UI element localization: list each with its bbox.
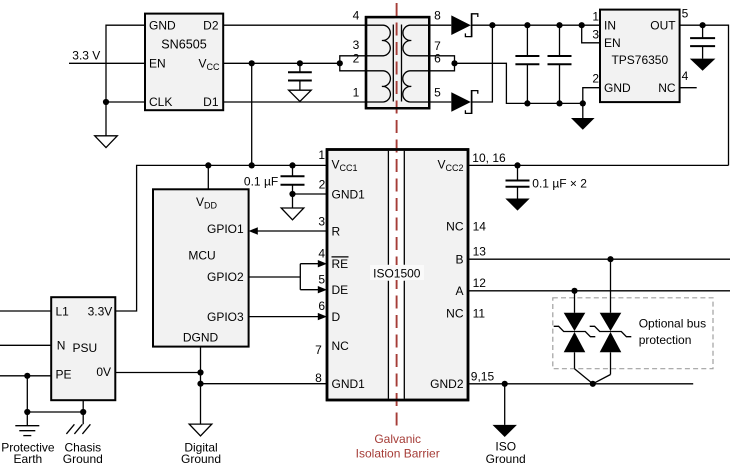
ground (TPS GND) filled triangle <box>571 118 595 130</box>
junction earth/link <box>24 409 30 415</box>
capacitor at TPS OUT <box>690 25 715 58</box>
wire TVS-B diagonal to GND2 <box>593 375 611 384</box>
wire TPS GND down <box>583 88 600 118</box>
svg-text:1: 1 <box>318 148 325 162</box>
svg-text:10, 16: 10, 16 <box>472 151 506 165</box>
svg-text:PSU: PSU <box>72 341 97 355</box>
junction B/TVS <box>607 256 613 262</box>
label Digital Ground <box>181 440 221 466</box>
ground (VCC cap) open triangle <box>289 90 312 101</box>
wire bottom diode up to rail <box>471 25 493 102</box>
svg-text:8: 8 <box>315 371 322 385</box>
svg-text:3: 3 <box>353 38 360 52</box>
wire D1 to transformer pin 1 <box>223 101 366 103</box>
label Chasis Ground <box>63 440 103 466</box>
arrow into GPIO1 <box>249 227 258 234</box>
svg-text:5: 5 <box>318 273 325 287</box>
svg-text:7: 7 <box>315 343 322 357</box>
TPS76350 labels <box>604 18 676 95</box>
svg-text:GND1: GND1 <box>332 187 366 201</box>
RE overline <box>332 256 349 258</box>
diode D2 (bottom rectifier) <box>429 90 478 114</box>
ground (OUT cap) filled triangle <box>690 59 716 71</box>
capacitor C2 input filter <box>548 25 572 103</box>
wire 0V/GND1 pin8 <box>201 383 328 385</box>
junction VDD/rail <box>205 162 211 168</box>
svg-text:1: 1 <box>353 86 360 100</box>
svg-text:8: 8 <box>434 9 441 23</box>
wire EN bracket <box>582 25 600 43</box>
ISO ground filled triangle <box>493 425 517 437</box>
junction chassis/link <box>80 409 86 415</box>
svg-text:Optional bus: Optional bus <box>639 317 706 331</box>
svg-text:GPIO2: GPIO2 <box>207 270 244 284</box>
wire OUT to right edge and down <box>680 25 729 165</box>
transformer core line right <box>401 25 403 102</box>
ISO1500 right pin labels <box>430 158 464 392</box>
svg-text:3.3V: 3.3V <box>88 304 113 318</box>
junction cap/VCC wire <box>297 60 303 66</box>
svg-text:6: 6 <box>434 51 441 65</box>
MCU body <box>153 189 249 346</box>
svg-text:4: 4 <box>353 9 360 23</box>
wire VCC2 rail <box>468 164 729 166</box>
svg-text:GND: GND <box>149 18 176 32</box>
svg-text:9,15: 9,15 <box>471 369 495 383</box>
junction C1 top <box>524 22 530 28</box>
SN6505 U1 body <box>145 14 223 111</box>
digital ground open triangle <box>189 424 212 436</box>
junction 0V corner <box>197 369 203 375</box>
ISO1500 right pin numbers <box>471 151 506 383</box>
svg-text:PE: PE <box>56 367 72 381</box>
wire R to GPIO1 <box>256 230 327 232</box>
svg-text:2: 2 <box>353 51 360 65</box>
junction OUT cap <box>700 22 706 28</box>
wire center tap to caps bottom rail <box>455 63 583 103</box>
svg-text:GPIO1: GPIO1 <box>207 222 244 236</box>
svg-text:2: 2 <box>319 178 326 192</box>
wire VCC down to 3.3V rail <box>251 63 253 165</box>
transformer pin numbers <box>353 9 442 100</box>
wire MCU VDD riser <box>207 165 209 189</box>
transformer secondary winding bottom <box>403 71 429 102</box>
capacitor at SN6505 VCC <box>288 63 312 90</box>
wire GPIO3 to D <box>249 316 320 318</box>
svg-text:Ground: Ground <box>181 452 221 466</box>
junction CLK/GND <box>103 99 109 105</box>
svg-text:IN: IN <box>604 18 616 32</box>
svg-text:SN6505: SN6505 <box>161 37 207 51</box>
junction bracket/VCC <box>337 60 343 66</box>
wire N <box>0 344 51 346</box>
junction C1 bottom <box>524 100 530 106</box>
wire L1 <box>0 310 51 312</box>
PSU body <box>51 297 115 400</box>
svg-text:1: 1 <box>592 9 599 23</box>
junction 0V/GND1 <box>197 381 203 387</box>
junction TVS/GND2 <box>590 381 596 387</box>
svg-text:D: D <box>332 310 341 324</box>
transformer core line left <box>392 25 394 102</box>
wire 0V <box>115 372 200 374</box>
ground (SN6505) open triangle <box>95 136 118 148</box>
svg-text:Ground: Ground <box>486 452 526 466</box>
junction GND/rail <box>580 100 586 106</box>
PSU labels <box>56 304 113 381</box>
svg-text:GPIO3: GPIO3 <box>207 310 244 324</box>
junction cap/GND1 <box>289 191 295 197</box>
wire PE <box>0 375 51 377</box>
svg-text:DE: DE <box>332 283 349 297</box>
wire GND1 pin2 <box>293 193 328 195</box>
svg-text:protection: protection <box>639 333 692 347</box>
optional bus protection dashed box <box>553 298 713 369</box>
svg-text:NC: NC <box>446 220 464 234</box>
svg-text:EN: EN <box>604 36 621 50</box>
ISO1500 channel line left <box>387 151 389 399</box>
svg-text:14: 14 <box>473 220 487 234</box>
svg-text:D1: D1 <box>203 95 219 109</box>
label Optional bus protection <box>639 317 706 347</box>
label Galvanic Isolation Barrier <box>356 432 440 461</box>
svg-text:Isolation Barrier: Isolation Barrier <box>356 446 440 460</box>
ISO1500 left pin labels <box>332 158 366 391</box>
svg-text:13: 13 <box>473 244 487 258</box>
ISO1500 U3 body fill <box>327 150 468 401</box>
svg-text:TPS76350: TPS76350 <box>611 53 668 67</box>
svg-text:RE: RE <box>332 257 349 271</box>
wire diode out to TPS IN rail <box>471 24 600 26</box>
svg-text:NC: NC <box>446 306 464 320</box>
junction VCC2 cap <box>514 162 520 168</box>
transformer primary winding bottom <box>367 71 391 102</box>
wire GPIO2 to RE/DE bracket <box>249 264 320 290</box>
svg-text:L1: L1 <box>56 304 70 318</box>
wire CLK <box>106 101 145 103</box>
transformer core gap (white) <box>395 18 401 107</box>
wire DGND to digital ground <box>200 347 202 425</box>
wire A <box>468 290 730 292</box>
wire pins3-2 bracket <box>340 56 366 71</box>
svg-text:OUT: OUT <box>650 18 676 32</box>
capacitor C1 input filter <box>515 25 539 103</box>
wire GND2 <box>468 383 693 385</box>
svg-text:0.1 µF: 0.1 µF <box>244 175 278 189</box>
TVS diode (B line) <box>590 259 632 374</box>
TPS76350 U2 body <box>600 10 680 103</box>
junction PE <box>24 373 30 379</box>
wire VCC to transformer bracket <box>223 62 340 64</box>
svg-text:D2: D2 <box>203 18 219 32</box>
ISO1500 channel line right <box>403 151 405 399</box>
svg-text:0.1 µF × 2: 0.1 µF × 2 <box>532 177 587 191</box>
svg-text:B: B <box>455 253 463 267</box>
svg-text:EN: EN <box>149 57 166 71</box>
wire NC stub <box>680 87 697 89</box>
wire GND2 to ISO ground <box>504 384 506 425</box>
svg-text:2: 2 <box>592 71 599 85</box>
junction EN/IN <box>579 22 585 28</box>
SN6505 labels <box>149 18 220 109</box>
ISO1500 U3 border <box>327 150 468 401</box>
ground (GND1 cap) open triangle <box>281 208 304 220</box>
ISO1500 label background <box>370 265 424 280</box>
arrow into DE pin5 <box>318 286 327 293</box>
svg-text:NC: NC <box>658 81 676 95</box>
svg-text:GND: GND <box>604 81 631 95</box>
capacitor 0.1uF x2 at VCC2 <box>506 165 530 198</box>
transformer T1 body fill <box>366 17 429 108</box>
svg-text:3: 3 <box>318 214 325 228</box>
svg-text:NC: NC <box>332 339 350 353</box>
svg-text:Galvanic: Galvanic <box>374 432 421 446</box>
svg-text:Earth: Earth <box>14 452 43 466</box>
transformer secondary winding top <box>403 25 428 56</box>
svg-text:N: N <box>57 339 66 353</box>
svg-text:MCU: MCU <box>188 249 215 263</box>
MCU labels <box>183 195 244 345</box>
svg-text:4: 4 <box>318 247 325 261</box>
capacitor 0.1uF at VCC1 <box>281 165 305 208</box>
wire 3.3V rail (PSU riser to VCC1) <box>115 165 327 311</box>
wire pins7-6 bracket <box>429 56 454 71</box>
wire B <box>468 258 730 260</box>
junction C2 bottom <box>556 100 562 106</box>
svg-text:GND2: GND2 <box>430 377 464 391</box>
junction A/TVS <box>571 288 577 294</box>
svg-text:3.3 V: 3.3 V <box>72 49 100 63</box>
svg-text:0V: 0V <box>96 365 111 379</box>
wire TVS-A diagonal to GND2 <box>575 369 593 384</box>
TPS pin numbers <box>592 9 599 85</box>
ISO1500 isolation channel (white) <box>388 151 404 399</box>
ISO1500 left pin numbers <box>315 148 326 385</box>
label Protective Earth <box>1 440 55 466</box>
svg-text:4: 4 <box>682 69 689 83</box>
junction cap/rail <box>289 162 295 168</box>
svg-text:A: A <box>455 284 463 298</box>
svg-text:12: 12 <box>473 276 487 290</box>
svg-text:GND1: GND1 <box>332 377 366 391</box>
arrow into RE pin4 <box>318 260 327 267</box>
junction diodes <box>489 22 495 28</box>
label ISO Ground <box>486 439 526 466</box>
svg-text:11: 11 <box>473 306 486 320</box>
protective earth symbol <box>15 426 39 436</box>
junction SN6505 VCC/rail <box>249 162 255 168</box>
junction GND2/ISO ground <box>502 381 508 387</box>
galvanic isolation barrier dashed line <box>396 3 398 431</box>
transformer T1 border <box>366 17 429 108</box>
TVS diode (A line) <box>554 291 596 369</box>
wire D2 to transformer pin 4 <box>223 24 366 26</box>
svg-text:5: 5 <box>434 86 441 100</box>
junction C2 top <box>556 22 562 28</box>
diode D1 (top rectifier) <box>429 13 478 37</box>
svg-text:5: 5 <box>682 7 689 21</box>
transformer primary winding top <box>367 25 390 56</box>
ground (VCC2 cap) filled triangle <box>505 199 529 211</box>
svg-text:DGND: DGND <box>183 331 219 345</box>
junction VCC/down <box>249 60 255 66</box>
arrow into D pin6 <box>318 313 327 320</box>
junction bracket/tap <box>451 60 457 66</box>
svg-text:R: R <box>332 224 341 238</box>
wire SN6505 GND to ground <box>106 25 145 136</box>
svg-text:CLK: CLK <box>149 95 172 109</box>
svg-text:Ground: Ground <box>63 452 103 466</box>
svg-text:6: 6 <box>318 299 325 313</box>
wire PE to earth <box>27 376 83 426</box>
wire 3.3V to EN <box>69 62 145 64</box>
chassis ground symbol <box>66 424 90 434</box>
svg-text:3: 3 <box>592 27 599 41</box>
svg-text:ISO1500: ISO1500 <box>373 266 421 280</box>
